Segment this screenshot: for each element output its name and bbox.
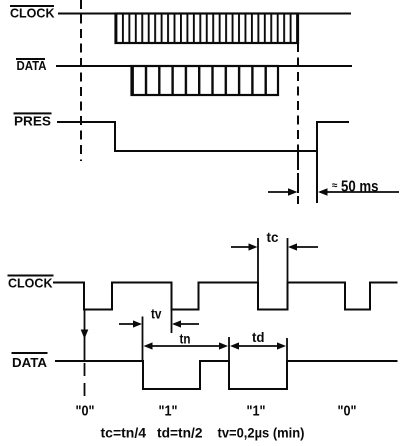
svg-text:"0": "0" [338,404,357,420]
svg-text:PRES: PRES [14,114,51,129]
svg-text:≈: ≈ [332,181,338,192]
dimension: tc ticks [258,238,288,283]
dimension: td tick at data rise [286,338,288,361]
svg-text:"1": "1" [247,404,266,420]
svg-text:tc=tn/4: tc=tn/4 [101,425,147,441]
dimension: tc right arrow [288,243,318,250]
label CLOCK (top) [10,5,55,21]
clock burst (hatched) [116,14,299,44]
dimension: sample arrow at first clock fall [81,310,89,399]
wire: PRES rising edge extension down [316,151,318,203]
wire: CLOCK idle line after burst [298,13,351,15]
label CLOCK (bottom) [8,275,54,291]
node: left dashed reference line [80,0,82,161]
svg-text:tn: tn [180,332,191,347]
wire: CLOCK waveform (bottom) [53,283,398,310]
svg-text:DATA: DATA [12,355,48,370]
text: bit value "0" (second) [338,404,357,420]
text: bit value "1" (second) [247,404,266,420]
svg-text:td=tn/2: td=tn/2 [157,425,203,441]
dimension: td arrows [230,342,286,349]
dimension: tn arrows [144,342,229,349]
wire: DATA waveform (bottom) [55,361,398,389]
text: tn label [180,332,191,347]
dimension: tv right arrow [172,320,199,327]
wire: PRES waveform [57,122,349,151]
wire: CLOCK idle line before burst [58,13,116,15]
text: td label [252,330,265,345]
text: bit value "1" (first) [159,404,178,420]
svg-text:50 ms: 50 ms [341,179,379,196]
dimension: tv tick (clock fall extension) [171,310,173,334]
wire: DATA idle line before burst [56,65,132,67]
dimension: ~50 ms left arrow [268,188,298,196]
wire: DATA idle line after burst [278,65,352,67]
svg-text:tc: tc [267,230,279,245]
text: tc label [267,230,279,245]
text: tv label [151,307,162,322]
text: ~50 ms value [332,179,379,196]
node: right dashed reference line [297,43,299,150]
svg-text:CLOCK: CLOCK [8,276,53,291]
dimension: tv left arrow [119,320,142,327]
text: bit value "0" (first) [76,404,95,420]
dimension: tc left arrow [231,243,258,250]
svg-text:tv=0,2µs (min): tv=0,2µs (min) [218,425,305,441]
dimension: ~50 ms right arrow [318,188,399,196]
text: timing formulas [101,425,305,441]
label DATA (bottom) [12,352,48,370]
svg-text:"1": "1" [159,404,178,420]
svg-text:DATA: DATA [17,58,48,73]
dimension: tv tick (data fall extension) [142,317,144,362]
label PRES (top) [14,112,52,128]
svg-text:tv: tv [151,307,162,322]
svg-text:td: td [252,330,265,345]
svg-text:CLOCK: CLOCK [10,6,55,21]
dimension: tn/td tick at second data fall [228,337,230,361]
data burst (hatched) [132,66,279,95]
label DATA (top) [16,58,47,73]
svg-text:"0": "0" [76,404,95,420]
